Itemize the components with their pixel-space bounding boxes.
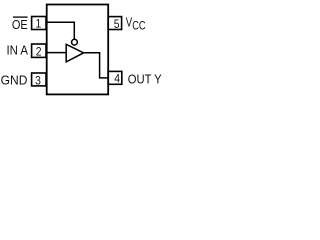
- pin 3 box: [32, 73, 46, 86]
- pin 1 box: [32, 17, 46, 30]
- pin 5 box: [108, 17, 121, 30]
- svg-text:4: 4: [114, 73, 120, 86]
- svg-text:IN A: IN A: [6, 43, 28, 58]
- wire buffer output to pin 4: [84, 53, 108, 78]
- pin 2 box: [32, 44, 46, 57]
- svg-text:1: 1: [36, 18, 42, 31]
- overline of OE: [13, 16, 28, 18]
- wire OE to enable bubble: [46, 22, 74, 39]
- IC package body U1: [47, 5, 108, 95]
- svg-text:OE: OE: [12, 17, 28, 32]
- pin 4 box: [108, 71, 122, 84]
- svg-text:GND: GND: [1, 73, 28, 88]
- svg-text:VCC: VCC: [126, 16, 146, 33]
- svg-text:3: 3: [35, 75, 41, 88]
- svg-text:5: 5: [114, 18, 120, 31]
- svg-text:2: 2: [36, 46, 42, 59]
- enable bubble: [72, 39, 78, 45]
- svg-text:OUT Y: OUT Y: [128, 72, 162, 87]
- wire IN A to buffer input: [46, 52, 66, 54]
- buffer triangle: [66, 44, 83, 62]
